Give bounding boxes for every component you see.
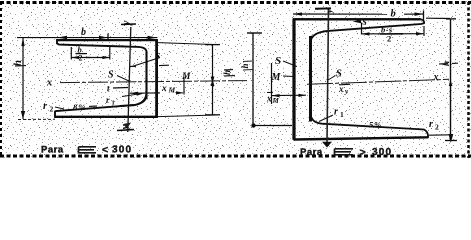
bottom tip extension to h dim xyxy=(429,134,452,136)
svg-text:x: x xyxy=(161,84,167,94)
channel web outer emphasized xyxy=(155,40,158,117)
bottom edge emphasized xyxy=(294,137,428,139)
dimension xM line xyxy=(130,92,160,94)
dimension b right arrow xyxy=(148,36,158,40)
h1 dimension far left of right drawing xyxy=(247,32,262,34)
x axis right drawing xyxy=(307,79,449,84)
frame border right xyxy=(467,2,470,158)
svg-text:x: x xyxy=(338,84,344,94)
dimension (b-s)/2 xyxy=(362,33,425,35)
right side dim line xyxy=(212,45,214,115)
svg-text:2: 2 xyxy=(435,123,439,132)
label xM left xyxy=(267,91,273,93)
x axis left drawing xyxy=(60,81,247,83)
web outer emphasized xyxy=(292,19,295,139)
top edge emphasized xyxy=(293,18,421,20)
right side dim extension bottom xyxy=(158,115,217,117)
svg-text:2: 2 xyxy=(50,105,54,114)
dimension b mid tick arrow xyxy=(99,36,108,39)
channel bottom edge emphasized xyxy=(55,116,157,118)
svg-text:s: s xyxy=(362,16,367,28)
svg-text:x: x xyxy=(266,94,272,104)
svg-text:r: r xyxy=(106,95,110,105)
svg-text:1: 1 xyxy=(340,110,344,119)
dimension b line xyxy=(293,13,387,15)
y axis right drawing xyxy=(327,9,329,143)
M point tick xyxy=(183,77,185,95)
svg-text:<: < xyxy=(102,144,108,156)
svg-text:M: M xyxy=(181,72,191,82)
channel outline right profile xyxy=(294,19,429,139)
dimension b/2 line xyxy=(71,57,90,59)
svg-text:M: M xyxy=(271,72,282,83)
svg-text:2: 2 xyxy=(387,33,391,43)
channel web inner emphasized xyxy=(145,52,147,99)
y axis left drawing xyxy=(128,27,131,132)
svg-text:300: 300 xyxy=(112,145,132,156)
frame border left xyxy=(0,2,2,158)
svg-text:1: 1 xyxy=(112,100,115,107)
svg-text:S: S xyxy=(275,55,281,67)
svg-text:S: S xyxy=(108,70,114,81)
right side dim extension top xyxy=(158,43,217,45)
svg-text:Para: Para xyxy=(300,147,323,158)
dimension b line xyxy=(17,37,157,39)
svg-text:2: 2 xyxy=(79,54,83,63)
svg-text:M: M xyxy=(168,86,176,95)
tip extension to h dim xyxy=(426,17,450,19)
xM dim line xyxy=(272,94,307,96)
frame border top xyxy=(0,1,471,4)
svg-text:M: M xyxy=(272,97,280,105)
M vertical line xyxy=(271,63,273,104)
dimension b left arrow xyxy=(57,36,67,39)
y axis bottom arrow xyxy=(322,142,332,148)
channel top edge emphasized xyxy=(57,39,157,41)
caption left: Para [ < 300 xyxy=(41,144,132,156)
svg-text:Para: Para xyxy=(41,145,64,156)
svg-text:r: r xyxy=(334,107,338,118)
svg-text:h: h xyxy=(240,63,250,68)
svg-text:h: h xyxy=(222,70,232,75)
label y top right drawing xyxy=(315,7,331,9)
svg-text:b: b xyxy=(81,27,86,38)
svg-text:5%: 5% xyxy=(369,120,382,130)
svg-text:x: x xyxy=(433,72,439,83)
svg-text:y: y xyxy=(325,8,335,14)
h dimension right side xyxy=(450,19,452,141)
caption right: Para [ > 300 xyxy=(300,146,392,158)
channel outline left profile xyxy=(55,40,157,117)
svg-text:8%: 8% xyxy=(73,102,86,112)
frame border bottom xyxy=(0,155,471,158)
web inner emphasized xyxy=(309,36,312,122)
h bottom extension dashed xyxy=(18,118,55,120)
svg-text:r: r xyxy=(429,119,433,130)
svg-text:x: x xyxy=(46,78,52,89)
dimension b/2 ticks xyxy=(70,47,72,60)
svg-text:>: > xyxy=(360,146,366,158)
dimension h line left xyxy=(22,38,24,119)
svg-text:S: S xyxy=(336,69,342,80)
r1 leader arrow xyxy=(122,94,140,97)
svg-text:300: 300 xyxy=(372,147,392,158)
svg-text:b: b xyxy=(391,9,396,20)
